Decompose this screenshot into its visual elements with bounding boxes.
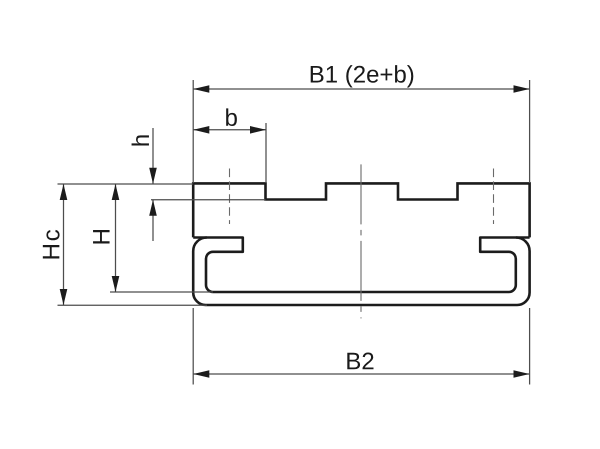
centerline middle	[360, 164, 362, 318]
ext line B1 left	[192, 80, 194, 183]
dimension B2	[193, 373, 529, 375]
dimension H	[115, 184, 117, 292]
ext line channel outer bottom	[58, 304, 208, 306]
C-channel inner contour with flange tops	[193, 238, 529, 293]
dimension h	[152, 128, 154, 184]
ext line b right	[265, 123, 267, 183]
C-channel outer contour	[193, 237, 529, 305]
dimension Hc	[63, 184, 65, 305]
profile top block outline	[193, 183, 529, 237]
ext line groove bottom level	[151, 199, 266, 201]
ext line B1 right	[529, 80, 531, 183]
centerline tab1	[229, 169, 231, 225]
dimension b	[193, 129, 266, 131]
centerline tab3	[493, 169, 495, 225]
ext line channel inner bottom	[110, 291, 213, 293]
ext line B2 right	[529, 308, 531, 385]
ext line profile top level	[58, 183, 194, 185]
dimension B1	[193, 88, 529, 90]
ext line B2 left	[192, 308, 194, 385]
